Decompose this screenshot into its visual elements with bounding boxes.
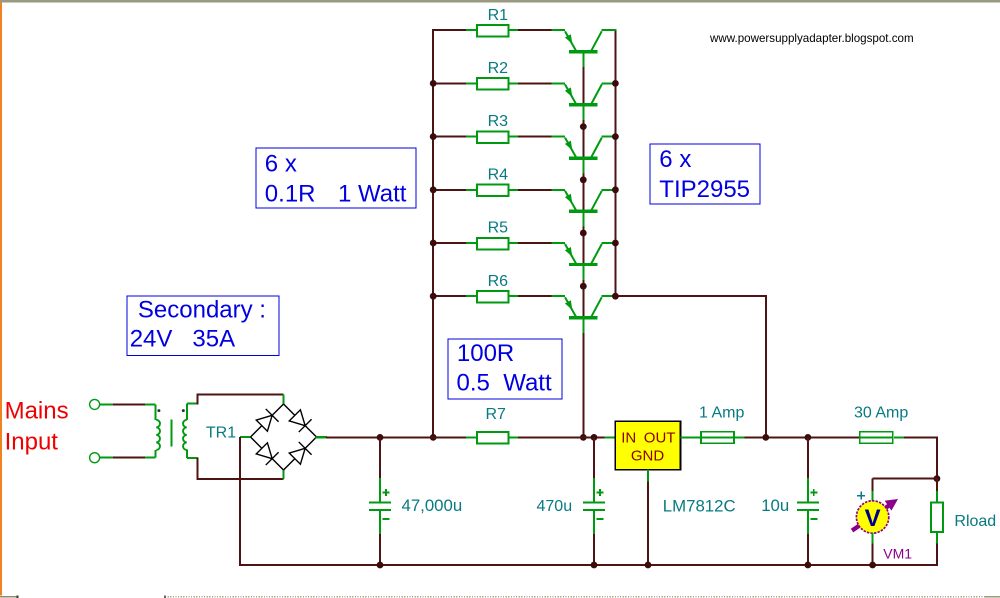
svg-text:LM7812C: LM7812C [663,497,736,516]
svg-text:IN: IN [621,430,636,447]
svg-text:GND: GND [631,448,665,465]
svg-text:Mains: Mains [5,398,69,425]
svg-text:R7: R7 [486,406,507,423]
svg-text:470u: 470u [537,498,573,515]
svg-text:Rload: Rload [954,513,996,530]
svg-text:VM1: VM1 [883,545,912,561]
svg-text:30 Amp: 30 Amp [854,404,908,421]
svg-text:www.powersupplyadapter.blogspo: www.powersupplyadapter.blogspot.com [709,32,914,45]
svg-text:TIP2955: TIP2955 [659,176,750,203]
svg-text:OUT: OUT [644,430,676,447]
svg-text:24V 35A: 24V 35A [130,326,235,353]
svg-text:R4: R4 [488,166,509,183]
svg-text:R6: R6 [488,273,509,290]
svg-text:6 x: 6 x [265,151,297,178]
svg-text:100R: 100R [457,340,514,367]
svg-text:R2: R2 [488,60,509,77]
svg-text:6 x: 6 x [659,146,691,173]
svg-text:0.1R: 0.1R [265,181,316,208]
svg-text:Input: Input [5,429,59,456]
svg-text:47,000u: 47,000u [402,496,463,515]
svg-text:R3: R3 [488,113,509,130]
svg-text:1 Amp: 1 Amp [699,404,744,421]
svg-text:10u: 10u [761,496,789,515]
svg-text:R1: R1 [488,7,509,24]
svg-text:R5: R5 [488,220,509,237]
svg-text:1 Watt: 1 Watt [338,181,407,208]
svg-text:Secondary :: Secondary : [138,297,266,324]
svg-text:0.5 Watt: 0.5 Watt [457,370,552,397]
svg-text:V: V [865,505,881,532]
svg-text:TR1: TR1 [206,425,236,442]
